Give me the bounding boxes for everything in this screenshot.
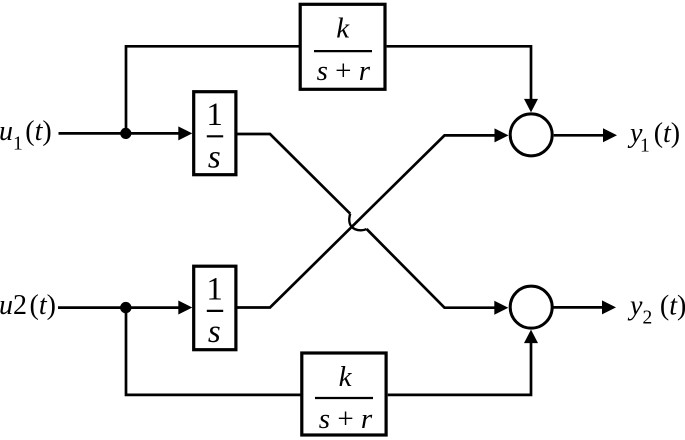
svg-text:s: s bbox=[208, 314, 221, 350]
svg-text:1: 1 bbox=[206, 272, 223, 308]
svg-text:k: k bbox=[339, 361, 353, 393]
svg-text:s: s bbox=[208, 140, 221, 176]
svg-text:s + r: s + r bbox=[317, 55, 371, 87]
svg-text:1: 1 bbox=[206, 97, 223, 133]
svg-text:s + r: s + r bbox=[319, 403, 373, 435]
svg-text:k: k bbox=[336, 13, 350, 45]
